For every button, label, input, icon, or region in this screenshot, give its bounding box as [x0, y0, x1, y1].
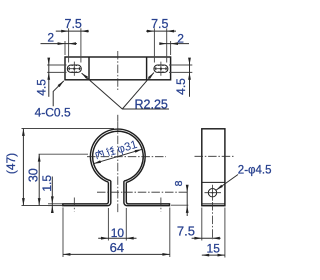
dim 30 extension line — [39, 153, 88, 155]
leader 2-phi4.5 — [216, 175, 238, 191]
front left leg and flange — [63, 181, 111, 206]
svg-text:R2.25: R2.25 — [135, 97, 168, 111]
svg-text:15: 15 — [207, 241, 221, 255]
svg-text:2: 2 — [47, 31, 54, 45]
dim 7.5 right dimension line — [146, 30, 176, 32]
svg-text:(47): (47) — [4, 153, 18, 174]
front right hole position centerline — [160, 198, 162, 212]
svg-text:7.5: 7.5 — [177, 223, 195, 238]
dim 15 extension line right — [224, 208, 226, 258]
svg-text:8: 8 — [173, 180, 185, 186]
dim 4.5 left dimension line — [48, 58, 50, 96]
dim 2 left dimension line — [41, 43, 78, 45]
top view ring silhouette edge right — [146, 57, 148, 80]
dim 2 right dimension line — [160, 43, 189, 45]
dim 8 extension line — [171, 204, 188, 206]
front left hole position centerline — [73, 198, 75, 212]
svg-text:4.5: 4.5 — [35, 79, 49, 96]
left ear hidden hole — [69, 65, 79, 72]
left ear hole centerline vertical — [73, 62, 75, 76]
side view ring bottom edge — [202, 181, 225, 183]
right ear tab outline — [154, 65, 168, 72]
svg-text:φ31: φ31 — [116, 139, 139, 156]
svg-text:10: 10 — [111, 226, 125, 240]
dim 64 extension lines — [62, 208, 64, 258]
dim 10 extension lines — [107, 208, 109, 241]
dim 1.5 extension lines — [48, 203, 62, 205]
dim 4.5 right dimension line — [189, 58, 191, 96]
right ear hole centerline horizontal — [155, 68, 168, 70]
dim 7.5 left dimension line — [56, 30, 89, 32]
dim 7.5 side extension line — [201, 208, 203, 241]
dim (47) line — [22, 129, 24, 206]
svg-text:2-φ4.5: 2-φ4.5 — [238, 164, 272, 176]
dim 4.5 left extension lines — [47, 64, 66, 66]
leader 4-C0.5 — [53, 81, 64, 106]
svg-text:4-C0.5: 4-C0.5 — [35, 105, 71, 119]
dim 10 line — [98, 237, 136, 239]
front top extension line — [22, 128, 115, 130]
svg-text:4.5: 4.5 — [174, 78, 188, 95]
side view ring centerline — [195, 155, 234, 157]
front ring inner circle — [93, 131, 144, 181]
front ring outer circle — [90, 129, 145, 182]
left ear hole centerline horizontal — [68, 68, 81, 70]
svg-text:1.5: 1.5 — [40, 175, 54, 192]
dim 7.5 side line — [192, 237, 221, 239]
svg-text:64: 64 — [110, 240, 124, 255]
top view vertical centerline — [117, 51, 119, 92]
left ear tab outline — [67, 65, 81, 72]
leader R2.25 arms — [82, 73, 169, 109]
top view base plate outline — [65, 57, 171, 80]
svg-text:7.5: 7.5 — [65, 17, 82, 31]
dim 2 left extension line — [64, 41, 66, 55]
side view outline — [202, 129, 225, 206]
dim 7.5 right extension lines — [153, 28, 155, 62]
right ear hidden hole — [156, 65, 166, 72]
front horizontal centerline — [87, 156, 166, 158]
side view hole — [208, 189, 216, 197]
dim 7.5 left extension lines — [68, 28, 70, 62]
svg-text:2: 2 — [177, 31, 184, 45]
front right leg and flange — [124, 181, 170, 206]
front hole height centerline — [97, 191, 188, 193]
dim 2 right extension line — [170, 41, 172, 55]
top view ring silhouette edge left — [88, 57, 90, 80]
front vertical centerline — [117, 122, 119, 213]
side view flange line — [202, 203, 225, 205]
right ear hole centerline vertical — [160, 62, 162, 76]
label inner-diameter phi31 (kanji) — [95, 139, 139, 162]
svg-text:30: 30 — [26, 168, 40, 182]
side view hole cross horizontal — [205, 192, 222, 194]
dim 30 line — [38, 154, 40, 205]
dim 4.5 right extension lines — [169, 64, 192, 66]
front bottom extension line left — [22, 205, 63, 207]
dim inner diameter line — [94, 149, 143, 163]
side view hole cross vertical and centerline — [211, 185, 213, 201]
dim 15 line — [202, 254, 225, 256]
svg-text:7.5: 7.5 — [151, 17, 168, 31]
dim 8 line — [186, 186, 188, 216]
dim 1.5 line — [51, 177, 53, 212]
dim 64 line — [63, 253, 170, 255]
